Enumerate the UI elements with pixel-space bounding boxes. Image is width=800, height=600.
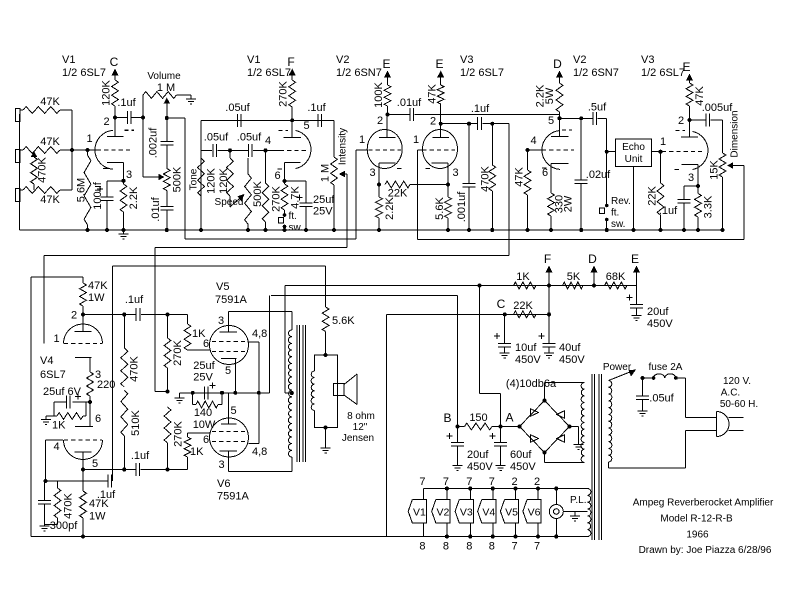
- junction grid2 node: [44, 479, 48, 483]
- tube V5 grid wire: [188, 349, 211, 351]
- label model: [660, 514, 733, 525]
- svg-text:500K: 500K: [172, 166, 184, 192]
- capacitor .1uf cathode V3b: [678, 186, 699, 230]
- label .005uf: [702, 102, 734, 114]
- svg-text:V4: V4: [482, 507, 495, 519]
- resistor 22K grid V3b: [657, 152, 664, 230]
- label .01uf: [150, 196, 162, 221]
- label .1uf: [307, 102, 326, 114]
- tube V2b envelope: [542, 131, 560, 170]
- svg-text:5.6K: 5.6K: [332, 315, 355, 327]
- supply tag E: [382, 57, 391, 85]
- junction: [605, 228, 609, 232]
- junction: [490, 228, 494, 232]
- label 22K: [513, 300, 533, 312]
- tube V1b grid dashed: [280, 149, 307, 151]
- junction: [165, 228, 169, 232]
- svg-text:V3: V3: [460, 54, 473, 66]
- svg-text:Dimension: Dimension: [730, 110, 741, 157]
- svg-text:450V: 450V: [647, 318, 673, 330]
- label 1: [660, 136, 666, 148]
- wire jack mix bus: [71, 110, 73, 190]
- svg-text:47K: 47K: [514, 167, 526, 187]
- svg-text:20uf: 20uf: [467, 449, 489, 461]
- capacitor 25uf 25V cathode bypass: [285, 181, 313, 230]
- label 22K: [647, 186, 659, 206]
- label .1uf: [471, 103, 490, 115]
- wire B+ rail: [285, 285, 637, 287]
- tube V1a grid dashed: [97, 149, 133, 151]
- svg-text:V2: V2: [336, 54, 349, 66]
- wire signal to V4 grid: [44, 256, 509, 344]
- junction: [446, 183, 450, 187]
- junction: [233, 391, 237, 395]
- junction: [304, 228, 308, 232]
- svg-text:.001uf: .001uf: [456, 191, 468, 223]
- tube V6 heater: [523, 487, 541, 539]
- svg-text:25V: 25V: [193, 372, 213, 384]
- junction: [199, 228, 203, 232]
- tube V4b plate: [75, 452, 92, 470]
- junction node 2 V2a: [386, 113, 390, 117]
- svg-text:5.6K: 5.6K: [434, 197, 446, 220]
- svg-text:5: 5: [548, 115, 554, 127]
- svg-text:5W: 5W: [544, 87, 556, 104]
- heater CT ground: [563, 512, 587, 522]
- label 5: [230, 405, 236, 417]
- pot Dimension 15K: [719, 120, 726, 230]
- label 3: [369, 167, 375, 179]
- OT center tap: [285, 286, 294, 396]
- svg-text:1 M: 1 M: [320, 164, 332, 182]
- switch ft. sw. tremolo: [279, 213, 287, 230]
- junction: [70, 148, 74, 152]
- capacitor 25uf 6V: [54, 396, 90, 409]
- label V5: [505, 507, 518, 519]
- capacitor 300pf: [38, 481, 51, 525]
- AC plug: [717, 412, 744, 437]
- junction: [122, 228, 126, 232]
- svg-text:100uf: 100uf: [92, 181, 104, 209]
- label .01uf: [397, 97, 422, 109]
- junction: [659, 228, 663, 232]
- svg-text:Drawn by: Joe Piazza 6/28/96: Drawn by: Joe Piazza 6/28/96: [639, 545, 772, 556]
- resistor 1K grid stopper V6: [184, 437, 191, 470]
- resistor 5.6K cathode V3a: [445, 185, 452, 231]
- label 4: [265, 135, 271, 147]
- label + 10uf 450V: [494, 333, 541, 366]
- svg-text:.05uf: .05uf: [649, 393, 674, 405]
- resistor 470K mix: [31, 151, 38, 190]
- wire screen rail: [271, 295, 458, 426]
- tube V3a cathode: [432, 163, 449, 185]
- label 1K: [190, 446, 204, 458]
- svg-text:4: 4: [265, 135, 271, 147]
- label 5K: [567, 271, 581, 283]
- capacitor 100uf cathode: [101, 181, 124, 230]
- svg-text:510K: 510K: [130, 409, 142, 435]
- svg-text:1/2 6SL7: 1/2 6SL7: [460, 67, 504, 79]
- wire plate line V4b: [83, 469, 124, 471]
- svg-text:8: 8: [466, 541, 472, 553]
- label 47K: [694, 86, 706, 106]
- svg-text:F: F: [287, 55, 294, 69]
- wire plate line V3a: [441, 123, 478, 125]
- pot Volume 1M: [143, 92, 191, 118]
- junction: [324, 426, 328, 430]
- capacitor 20uf 450V B: [451, 427, 464, 471]
- label + 60uf 450V: [490, 433, 537, 473]
- label 4.7K: [290, 186, 302, 209]
- resistor 2.2K cathode V2a: [376, 185, 383, 231]
- svg-text:sw.: sw.: [289, 223, 303, 234]
- wire screens B feed: [269, 295, 271, 393]
- supply tag C: [110, 55, 119, 80]
- svg-text:6: 6: [274, 170, 280, 182]
- capacitor .1uf coupling V3a: [478, 117, 509, 130]
- tube V4a grid dashed: [64, 343, 102, 345]
- label .05uf: [649, 393, 674, 405]
- svg-text:1/2 6SN7: 1/2 6SN7: [336, 67, 382, 79]
- capacitor .05uf osc A: [237, 114, 241, 127]
- tube V4b cathode: [75, 402, 93, 427]
- svg-text:Unit: Unit: [625, 154, 643, 165]
- wire A to bridge: [501, 426, 520, 428]
- svg-text:V5: V5: [505, 507, 518, 519]
- svg-text:2: 2: [534, 476, 540, 488]
- svg-text:5: 5: [230, 405, 236, 417]
- svg-text:B: B: [443, 411, 451, 425]
- label V5 7591A: [215, 281, 247, 306]
- wire C rail: [386, 313, 549, 315]
- label + 40uf 450V: [539, 333, 586, 366]
- svg-text:68K: 68K: [606, 271, 626, 283]
- svg-text:V4: V4: [40, 355, 53, 367]
- label Tone: [189, 168, 200, 190]
- tube V5 heater: [500, 487, 518, 539]
- svg-text:470K: 470K: [480, 165, 492, 191]
- label .05uf: [225, 102, 250, 114]
- svg-text:V1: V1: [247, 54, 260, 66]
- label 5.6M: [76, 178, 88, 202]
- svg-text:2: 2: [678, 115, 684, 127]
- junction: [122, 468, 126, 472]
- svg-text:1/2 6SN7: 1/2 6SN7: [573, 67, 619, 79]
- junction node C: [503, 312, 507, 316]
- tube V1a plate dashes: [125, 129, 135, 131]
- tube V3 heater: [455, 487, 473, 539]
- label Dimension: [730, 110, 741, 157]
- tube V1b plate: [284, 120, 302, 137]
- label pin 2: [512, 476, 518, 488]
- capacitor .005uf: [690, 114, 723, 127]
- svg-text:8: 8: [443, 541, 449, 553]
- svg-text:150: 150: [469, 412, 487, 424]
- OT secondary winding: [311, 371, 314, 411]
- label 4: [53, 441, 59, 453]
- svg-text:V2: V2: [573, 54, 586, 66]
- svg-text:V6: V6: [217, 478, 230, 490]
- svg-text:5: 5: [225, 365, 231, 377]
- ground speaker: [321, 428, 331, 454]
- label 150: [469, 412, 487, 424]
- label (4)10db6a: [506, 378, 557, 390]
- junction: [88, 400, 92, 404]
- capacitor .01uf: [160, 191, 173, 231]
- resistor 510K divider: [121, 390, 128, 470]
- tube V3a grid wire: [418, 150, 423, 239]
- tube V1b cathode: [285, 163, 301, 181]
- tube V2a envelope: [367, 130, 402, 169]
- resistor 270K plate load V1b: [289, 80, 296, 120]
- label 1: [359, 134, 365, 146]
- tube V2b plate dashes: [562, 129, 572, 131]
- junction node 2 V4: [81, 313, 85, 317]
- wire bridge bottom AC: [545, 453, 585, 463]
- label 68K: [606, 271, 626, 283]
- ground 300pf: [40, 525, 50, 532]
- tube V3b envelope: [693, 131, 708, 169]
- capacitor .001uf: [463, 122, 476, 230]
- label V1 1/2 6SL7: [62, 54, 106, 79]
- label .1uf: [131, 450, 150, 462]
- svg-text:6: 6: [203, 434, 209, 446]
- tube V1b plate dashes: [279, 129, 289, 131]
- label V4: [482, 507, 495, 519]
- svg-text:22K: 22K: [513, 300, 533, 312]
- label 47K: [40, 136, 60, 148]
- junction node B: [456, 425, 460, 429]
- tube V4 heater: [478, 487, 496, 539]
- wire tone feed: [143, 118, 165, 181]
- svg-text:.1uf: .1uf: [659, 205, 678, 217]
- svg-text:3: 3: [688, 172, 694, 184]
- capacitor .1uf coupling V4a: [125, 308, 168, 321]
- svg-text:300pf: 300pf: [50, 520, 78, 532]
- label V2: [436, 507, 449, 519]
- resistor 120K osc 1: [198, 158, 205, 196]
- svg-text:220: 220: [97, 379, 115, 391]
- tube V2a cathode: [379, 163, 396, 185]
- junction: [191, 391, 195, 395]
- resistor 47K input 1: [20, 107, 72, 114]
- junction: [549, 228, 553, 232]
- junction: [721, 228, 725, 232]
- capacitor .1uf osc B: [318, 114, 322, 127]
- svg-text:Volume: Volume: [147, 71, 181, 82]
- junction: [605, 150, 609, 154]
- label ft.: [289, 211, 297, 222]
- svg-text:.1uf: .1uf: [117, 97, 136, 109]
- supply tag F: [544, 252, 553, 286]
- svg-text:25V: 25V: [313, 206, 333, 218]
- label Intensity: [338, 128, 349, 165]
- label B: [443, 411, 451, 425]
- wire V6 plate to OT: [229, 457, 292, 472]
- svg-text:10uf: 10uf: [515, 342, 537, 354]
- label .002uf: [148, 127, 160, 159]
- svg-text:Jensen: Jensen: [342, 433, 374, 444]
- svg-text:40uf: 40uf: [559, 342, 581, 354]
- label 3: [218, 459, 224, 471]
- svg-text:450V: 450V: [559, 354, 585, 366]
- svg-text:1966: 1966: [686, 530, 709, 541]
- svg-text:.005uf: .005uf: [702, 102, 734, 114]
- label 1: [413, 134, 419, 146]
- tube V2b grid dashed: [542, 149, 574, 151]
- resistor 140 10W: [193, 393, 222, 408]
- svg-text:15K: 15K: [709, 160, 721, 180]
- svg-text:6: 6: [542, 167, 548, 179]
- label 3: [452, 167, 458, 179]
- label sw.: [611, 219, 625, 230]
- wire jack ground bus: [19, 114, 21, 230]
- svg-text:470K: 470K: [37, 156, 49, 182]
- wire screen-cathode bus: [180, 392, 270, 394]
- resistor 150 B-A: [458, 423, 501, 430]
- svg-text:3: 3: [218, 315, 224, 327]
- label .02uf: [586, 169, 611, 181]
- svg-text:Ampeg Reverberocket Amplifier: Ampeg Reverberocket Amplifier: [633, 498, 774, 509]
- label Speed: [215, 197, 244, 208]
- svg-text:120K: 120K: [206, 167, 218, 193]
- wire AC loop: [609, 378, 717, 468]
- svg-text:.1uf: .1uf: [125, 294, 144, 306]
- wire speed wiper arrow: [230, 194, 245, 207]
- tube V2b cathode: [551, 164, 569, 193]
- pot Speed 500K: [245, 158, 252, 230]
- svg-text:V6: V6: [528, 507, 541, 519]
- svg-text:V5: V5: [216, 281, 229, 293]
- svg-text:1/2 6SL7: 1/2 6SL7: [247, 67, 291, 79]
- label .1uf: [97, 489, 116, 501]
- label V3: [460, 507, 473, 519]
- label 47K: [427, 84, 439, 104]
- junction: [166, 313, 170, 317]
- label 5: [548, 115, 554, 127]
- label title: [633, 498, 774, 509]
- svg-text:.02uf: .02uf: [586, 169, 611, 181]
- resistor 22K C-F: [505, 311, 549, 318]
- label pin 8: [443, 541, 449, 553]
- tube V6 cathode: [221, 393, 237, 424]
- label 5: [92, 458, 98, 470]
- junction: [377, 228, 381, 232]
- svg-text:270K: 270K: [172, 339, 184, 365]
- wire power section box: [385, 314, 387, 536]
- OT core: [297, 325, 306, 462]
- label 5: [225, 365, 231, 377]
- svg-text:Echo: Echo: [622, 142, 645, 153]
- svg-text:7591A: 7591A: [215, 294, 247, 306]
- svg-text:120K: 120K: [101, 79, 113, 105]
- capacitor .1uf to V6 grid: [125, 463, 188, 476]
- svg-text:1K: 1K: [516, 271, 530, 283]
- svg-text:270K: 270K: [278, 80, 290, 106]
- label 2.2K: [384, 197, 396, 220]
- svg-text:E: E: [682, 60, 690, 74]
- svg-text:3: 3: [126, 169, 132, 181]
- svg-text:3: 3: [369, 167, 375, 179]
- resistor 120K plate load V1a: [112, 80, 119, 118]
- svg-text:P.L.: P.L.: [570, 495, 587, 506]
- svg-text:1: 1: [660, 136, 666, 148]
- wire intensity line: [155, 248, 347, 392]
- resistor 470K grid2: [45, 481, 61, 525]
- label 140 10W: [193, 407, 216, 431]
- svg-text:1 M: 1 M: [157, 82, 175, 94]
- capacitor .1uf coupling V1a: [115, 111, 143, 124]
- label 2: [377, 115, 383, 127]
- wire ground bus: [20, 229, 723, 231]
- tube V3a cathode dashes: [426, 168, 431, 170]
- label 47K: [40, 194, 60, 206]
- svg-text:V3: V3: [460, 507, 473, 519]
- capacitor .1uf feedback: [46, 474, 113, 488]
- label pin 8: [419, 541, 425, 553]
- wire osc left leg: [200, 150, 202, 230]
- label pin 7: [512, 541, 518, 553]
- svg-text:4,8: 4,8: [252, 446, 267, 458]
- tube V3a plate: [433, 124, 450, 138]
- label 6: [95, 413, 101, 425]
- svg-text:4: 4: [530, 135, 536, 147]
- tube V5 screen wire: [248, 342, 258, 393]
- ground volume: [186, 95, 196, 104]
- label V2 1/2 6SN7: [573, 54, 619, 79]
- junction: [467, 228, 471, 232]
- svg-text:.01uf: .01uf: [150, 196, 162, 221]
- wire V5 plate to OT: [229, 312, 292, 331]
- junction plate node V4b: [81, 468, 85, 472]
- junction bias node: [166, 390, 170, 394]
- PT heater winding: [588, 489, 591, 537]
- resistor 1K cathode V4: [54, 402, 86, 419]
- label 4: [530, 135, 536, 147]
- tube V3b plate: [681, 120, 698, 137]
- junction: [682, 228, 686, 232]
- tube V4a envelope: [64, 324, 103, 343]
- label 2: [430, 116, 436, 128]
- junction: [228, 148, 232, 152]
- junction: [592, 284, 596, 288]
- svg-text:7: 7: [443, 476, 449, 488]
- svg-text:1W: 1W: [88, 292, 105, 304]
- svg-text:E: E: [631, 252, 639, 266]
- wire rectifier feed: [480, 286, 501, 427]
- supply tag E: [631, 252, 640, 286]
- label 300pf: [50, 520, 78, 532]
- label Echo Unit: [622, 142, 645, 165]
- tube V1b grid wire: [266, 149, 281, 151]
- capacitor .05uf D: [230, 144, 266, 157]
- junction: [332, 228, 336, 232]
- tube V2a grid dashed: [369, 149, 402, 151]
- label 2.2K: [128, 186, 140, 209]
- capacitor .05uf C: [213, 144, 230, 157]
- svg-text:1: 1: [359, 134, 365, 146]
- label + 25uf 25V: [193, 360, 215, 389]
- tube V2b cathode dash: [542, 167, 547, 169]
- svg-text:500K: 500K: [252, 180, 264, 206]
- svg-text:A: A: [505, 411, 513, 425]
- junction: [696, 184, 700, 188]
- speaker cone: [344, 374, 357, 405]
- resistor 120K osc 2: [227, 150, 234, 207]
- tube V1b cathode dash: [278, 168, 283, 170]
- label 470K: [129, 355, 141, 381]
- label 47K: [514, 167, 526, 187]
